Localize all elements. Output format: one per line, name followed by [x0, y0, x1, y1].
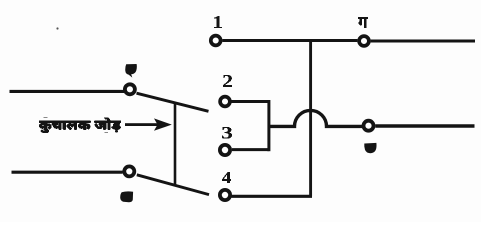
label कुचालक जोड़ (insulating joint) — [39, 118, 121, 134]
switch blade from pole ब — [137, 175, 209, 195]
pin label 3 — [222, 127, 232, 139]
switch pole terminal क — [125, 84, 135, 94]
label क — [125, 64, 137, 78]
terminal 2 — [220, 97, 230, 107]
terminal ब (right) — [364, 121, 374, 131]
wire W1: left feed to switch pole क — [10, 90, 125, 93]
switch blade from pole क — [137, 93, 209, 111]
terminal 1 — [211, 36, 221, 46]
wire W8: middle rail with hop over W4, to terminal ब(right) and beyond — [268, 110, 475, 126]
stray scan dot — [56, 27, 58, 29]
pin label 1 — [214, 16, 222, 28]
terminal 3 — [220, 145, 230, 155]
switch pole terminal ब (left) — [124, 166, 134, 176]
label ग — [358, 17, 368, 28]
label ब (left) — [120, 191, 133, 202]
terminal ग — [359, 36, 369, 46]
terminal 4 — [220, 190, 230, 200]
insulating link bar (कुचालक जोड़) — [174, 103, 177, 186]
pin label 2 — [223, 75, 232, 87]
wire W4: vertical link from top rail junction down to terminal-4 wire — [309, 41, 312, 197]
pin label 4 — [222, 172, 231, 183]
label ब (right) — [364, 143, 376, 153]
wire W9: stub from terminal 4 to vertical link W4 — [232, 195, 313, 198]
wire W5: stub from terminal 2 — [232, 100, 269, 103]
wire W7: bracket joining stubs of 2 and 3 — [267, 100, 270, 151]
arrow pointing to insulating link — [125, 118, 172, 130]
wire W2: left feed to switch pole ब — [12, 171, 123, 174]
wire W6: stub from terminal 3 — [232, 148, 269, 151]
wire W3: top rail, terminal 1 to terminal ग and beyond — [222, 39, 475, 43]
